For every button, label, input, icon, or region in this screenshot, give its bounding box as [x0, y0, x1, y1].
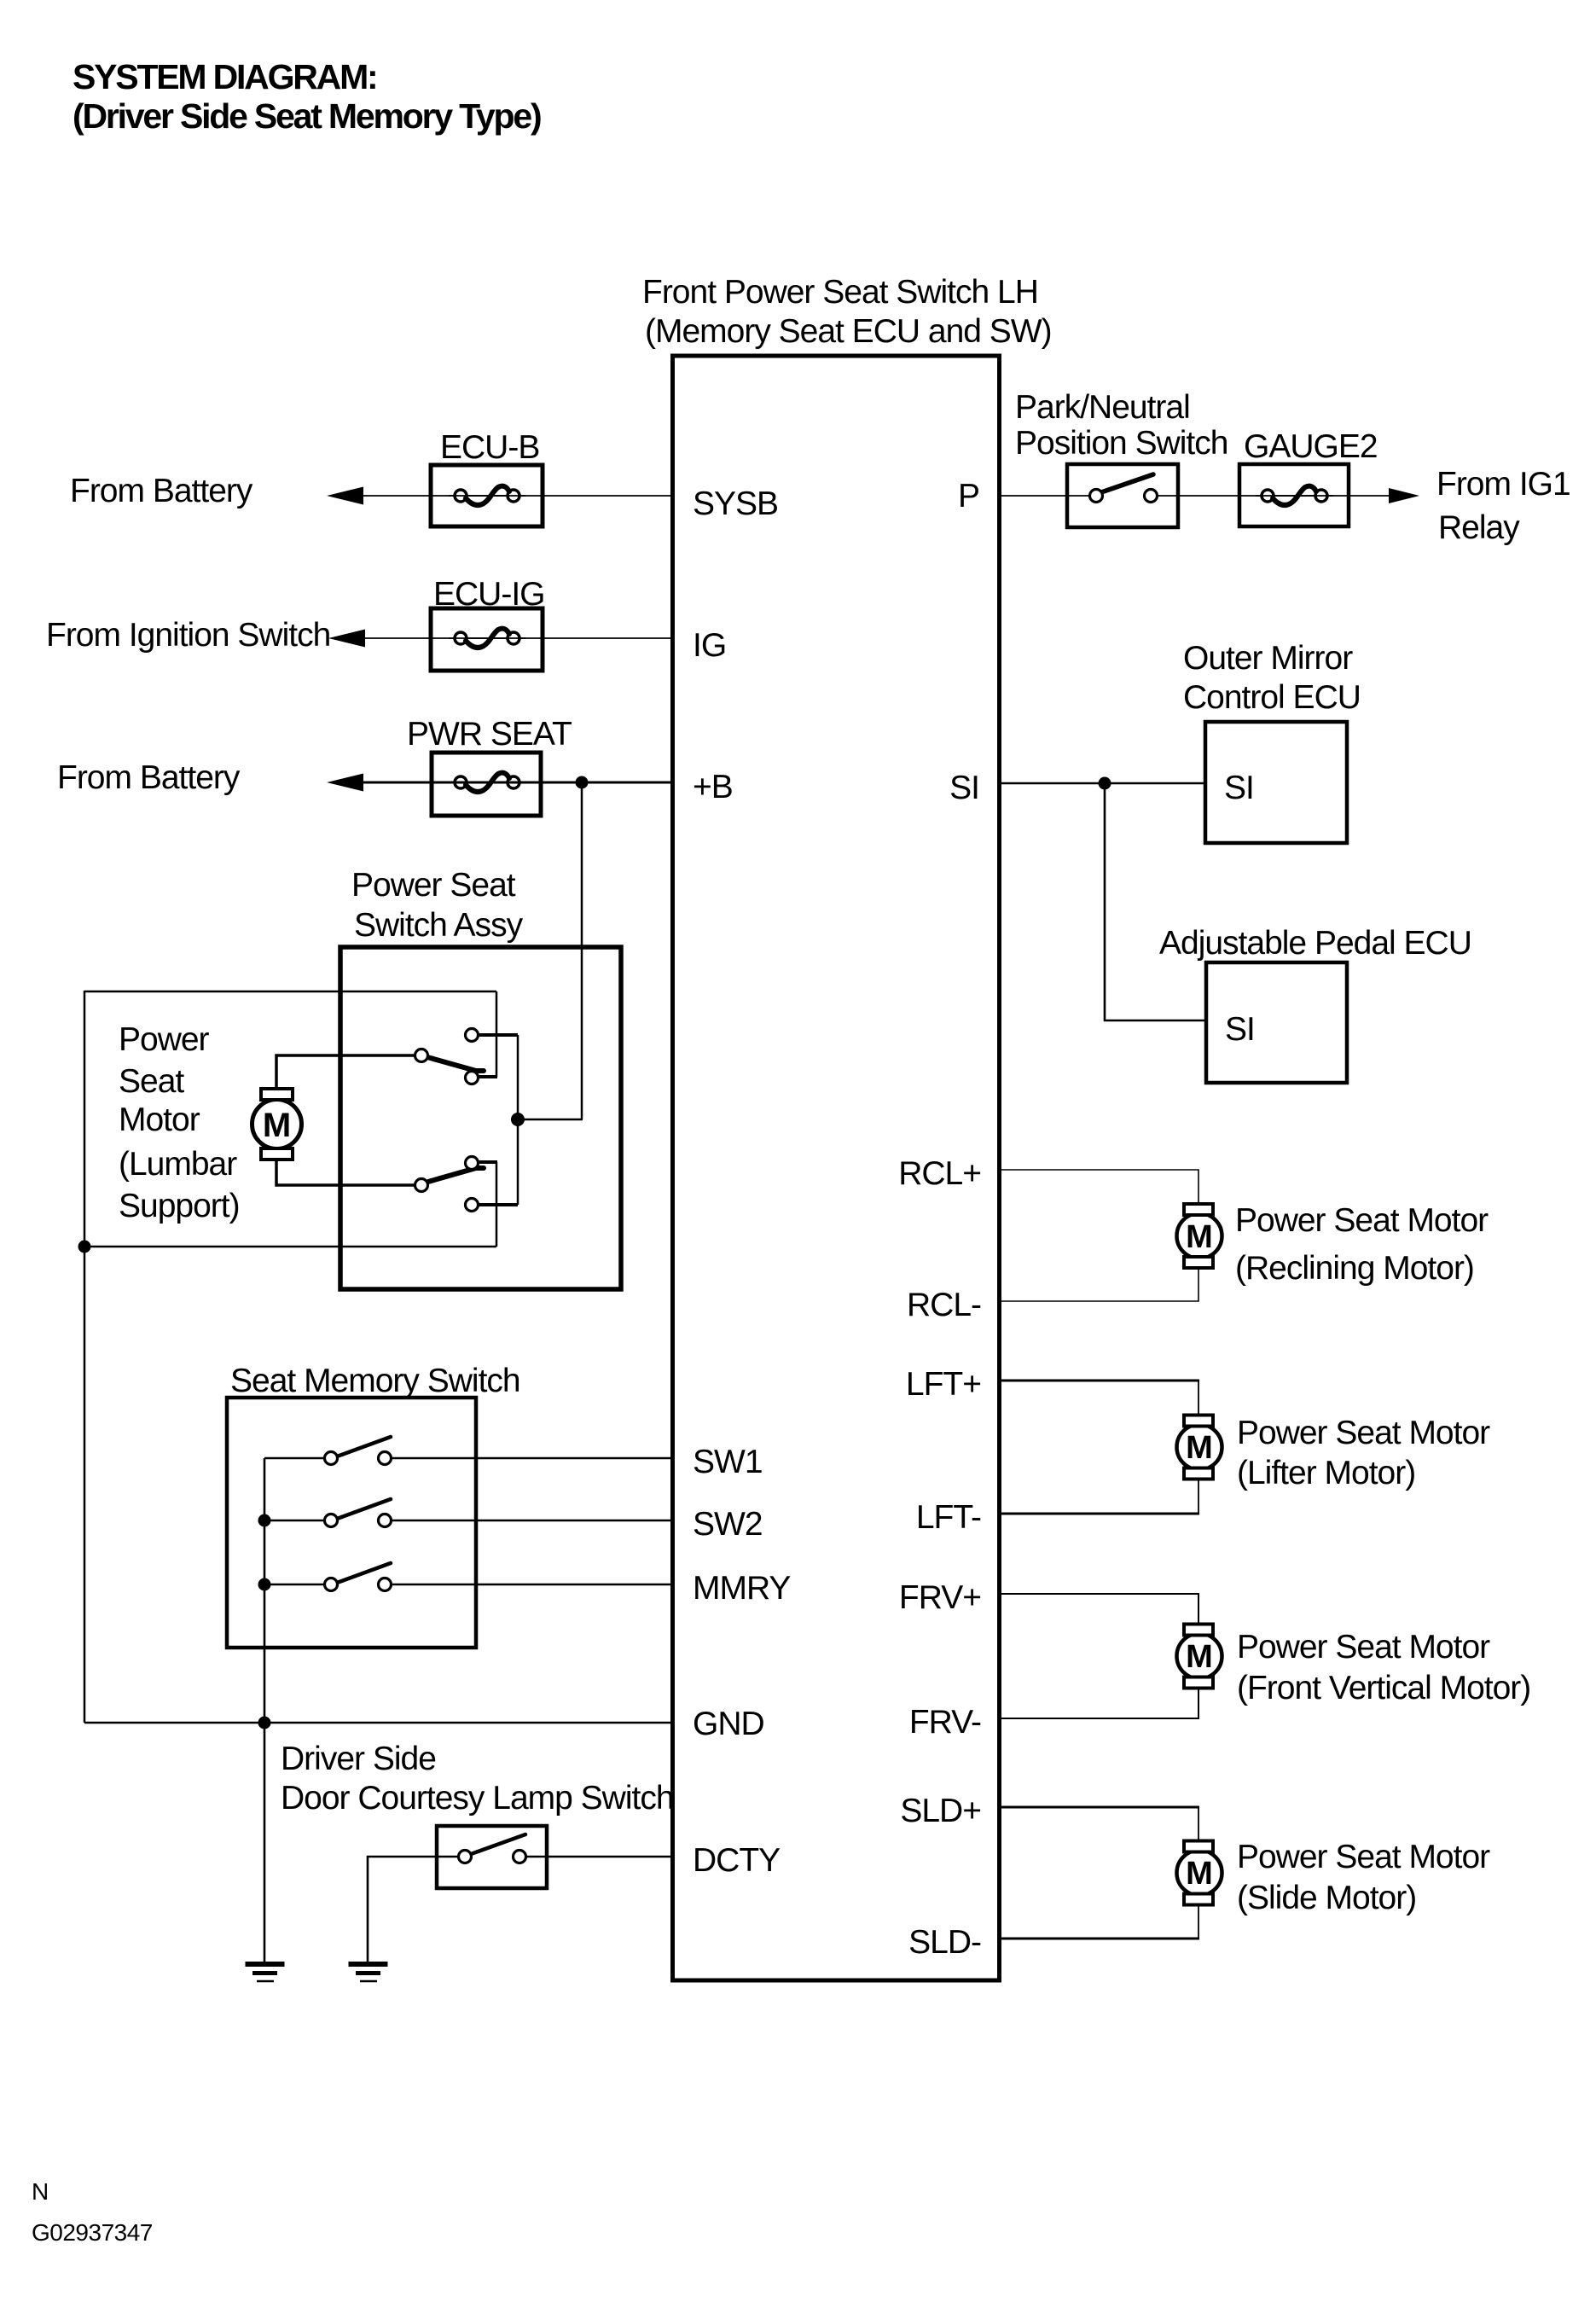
arrow to ignition switch (IG): [328, 630, 365, 648]
svg-text:Power Seat Motor: Power Seat Motor: [1237, 1839, 1490, 1875]
motor M5 slide motor: [1177, 1841, 1222, 1905]
Seat Memory Switch box: [227, 1363, 520, 1648]
junction dot SI net: [1099, 777, 1111, 790]
svg-text:SLD-: SLD-: [908, 1924, 981, 1961]
wire SW2 row: [392, 1520, 674, 1522]
wire stub to top switch lower contact: [477, 1075, 497, 1078]
svg-text:Switch Assy: Switch Assy: [354, 907, 524, 944]
svg-text:Seat: Seat: [119, 1063, 184, 1100]
wire bottom switch lower contact to +B net: [479, 1203, 518, 1206]
ECU U0 Front Power Seat Switch LH main box: [642, 274, 1052, 1980]
svg-text:IG: IG: [693, 627, 726, 664]
svg-text:Support): Support): [119, 1188, 240, 1224]
fuse PWR SEAT: [407, 716, 572, 816]
wire FRV- row: [999, 1689, 1198, 1718]
svg-text:(Memory Seat ECU and SW): (Memory Seat ECU and SW): [645, 313, 1052, 350]
svg-text:SI: SI: [1224, 770, 1254, 806]
wire memory switch common vertical: [264, 1458, 266, 1723]
wire lumbar loop right vertical lower: [496, 1162, 498, 1247]
switch SW1: [264, 1437, 392, 1465]
svg-text:G02937347: G02937347: [32, 2219, 153, 2246]
svg-text:DCTY: DCTY: [693, 1842, 781, 1879]
svg-text:M: M: [1186, 1430, 1213, 1466]
motor M3 lifter motor: [1177, 1415, 1222, 1479]
svg-text:SW2: SW2: [693, 1506, 763, 1543]
wire LFT+ row: [999, 1380, 1199, 1382]
svg-text:(Slide Motor): (Slide Motor): [1237, 1880, 1416, 1916]
wire MMRY row: [392, 1584, 674, 1586]
svg-text:ECU-B: ECU-B: [440, 429, 539, 466]
wire stub to bottom switch upper contact: [477, 1160, 497, 1164]
wire SI row: [999, 782, 1205, 785]
junction dot SW2 common: [258, 1514, 271, 1527]
svg-text:Position Switch: Position Switch: [1015, 425, 1227, 462]
switch S2 Park/Neutral Position Switch: [1015, 389, 1227, 527]
svg-text:Power Seat Motor: Power Seat Motor: [1235, 1202, 1489, 1239]
svg-text:From IG1: From IG1: [1436, 466, 1570, 503]
wire assy +B net to drop: [518, 1119, 583, 1121]
svg-text:PWR SEAT: PWR SEAT: [407, 716, 572, 753]
wire +B drop to switch assy: [581, 782, 583, 1119]
wire lumbar motor top lead: [276, 1055, 415, 1090]
svg-text:RCL+: RCL+: [898, 1155, 981, 1192]
node From IG1 Relay label: [1436, 466, 1570, 546]
wire memory common to ground symbol: [264, 1723, 266, 1964]
svg-text:Relay: Relay: [1438, 509, 1520, 546]
wire lumbar ground loop top: [84, 991, 496, 993]
junction dot MMRY common: [258, 1578, 271, 1591]
svg-text:RCL-: RCL-: [907, 1287, 981, 1323]
svg-text:Power Seat: Power Seat: [351, 867, 516, 904]
switch SW2: [264, 1499, 392, 1527]
junction +B node dot: [576, 776, 589, 789]
wire +B row: [337, 782, 674, 784]
svg-text:FRV-: FRV-: [909, 1704, 981, 1741]
wire P row: [999, 495, 1090, 497]
wire SYSB row: [337, 495, 674, 497]
title text: [73, 57, 541, 136]
arrow to battery (SYSB): [327, 487, 363, 505]
switch S1 Driver Side Door Courtesy Lamp Switch: [281, 1741, 674, 1888]
motor front vertical label: [1237, 1629, 1530, 1706]
wire lumbar ground loop bottom: [84, 1246, 496, 1248]
svg-text:(Front Vertical Motor): (Front Vertical Motor): [1237, 1670, 1530, 1706]
svg-text:Door Courtesy Lamp Switch: Door Courtesy Lamp Switch: [281, 1780, 674, 1817]
svg-text:M: M: [1186, 1639, 1213, 1675]
svg-text:SW1: SW1: [693, 1444, 763, 1480]
svg-text:From Battery: From Battery: [70, 473, 253, 509]
wire SLD+ row: [999, 1806, 1199, 1809]
ground symbol right: [349, 1964, 388, 1981]
motor reclining label: [1235, 1202, 1489, 1287]
wire SW1 row: [392, 1457, 674, 1460]
svg-text:Motor: Motor: [119, 1102, 200, 1138]
svg-text:SYSTEM DIAGRAM:: SYSTEM DIAGRAM:: [73, 57, 377, 96]
wire RCL- row: [999, 1268, 1198, 1301]
junction dot assy +B net: [511, 1113, 525, 1126]
wire LFT- row: [999, 1513, 1199, 1515]
svg-text:Seat Memory Switch: Seat Memory Switch: [230, 1363, 520, 1399]
wire RCL+ row: [999, 1170, 1198, 1204]
svg-text:GND: GND: [693, 1706, 764, 1742]
wire lumbar loop right vertical upper: [496, 991, 498, 1077]
ECU U2 Outer Mirror Control ECU: [1183, 640, 1361, 843]
svg-text:SI: SI: [949, 770, 979, 806]
motor M1 lumbar support: [252, 1089, 302, 1160]
fuse ECU-IG: [431, 576, 545, 671]
switch assy top switch: [415, 1029, 485, 1084]
svg-text:P: P: [958, 478, 979, 514]
svg-text:+B: +B: [693, 769, 733, 805]
wire SLD- row: [999, 1938, 1199, 1940]
wire +B net vertical in assy: [517, 1035, 519, 1205]
motor lifter label: [1237, 1415, 1490, 1491]
motor M4 front vertical motor: [1177, 1625, 1222, 1689]
svg-text:From Ignition Switch: From Ignition Switch: [46, 617, 330, 654]
ground symbol left: [246, 1964, 285, 1981]
svg-text:SYSB: SYSB: [693, 485, 778, 522]
svg-text:M: M: [1186, 1856, 1213, 1892]
fuse ECU-B: [431, 429, 543, 526]
svg-text:Outer Mirror: Outer Mirror: [1183, 640, 1353, 677]
svg-text:GAUGE2: GAUGE2: [1244, 428, 1378, 465]
wire IG row: [339, 637, 674, 639]
arrow to IG1 relay: [1389, 488, 1419, 503]
svg-text:(Driver Side Seat Memory Type): (Driver Side Seat Memory Type): [73, 96, 541, 136]
svg-text:M: M: [263, 1107, 291, 1144]
junction dot GND / memory common: [258, 1717, 271, 1729]
svg-text:(Lumbar: (Lumbar: [119, 1146, 237, 1183]
wire courtesy switch to ground: [368, 1857, 458, 1964]
svg-text:N: N: [32, 2178, 49, 2205]
svg-text:Power Seat Motor: Power Seat Motor: [1237, 1415, 1490, 1451]
switch MMRY: [264, 1563, 392, 1591]
svg-text:M: M: [1186, 1219, 1213, 1255]
svg-text:SI: SI: [1225, 1011, 1255, 1048]
wire ground left vertical: [84, 991, 86, 1723]
svg-text:Power Seat Motor: Power Seat Motor: [1237, 1629, 1490, 1665]
svg-text:Power: Power: [119, 1021, 210, 1058]
svg-text:Driver Side: Driver Side: [281, 1741, 436, 1777]
motor slide label: [1237, 1839, 1490, 1916]
svg-text:LFT+: LFT+: [906, 1366, 981, 1403]
motor lumbar support label: [119, 1021, 240, 1224]
motor M2 reclining motor: [1177, 1204, 1222, 1268]
wire top switch upper contact to +B net: [479, 1033, 518, 1037]
fuse GAUGE2: [1239, 428, 1378, 526]
svg-text:Control ECU: Control ECU: [1183, 679, 1361, 716]
svg-text:Adjustable Pedal ECU: Adjustable Pedal ECU: [1159, 925, 1471, 962]
svg-text:(Lifter Motor): (Lifter Motor): [1237, 1455, 1415, 1491]
wire SI branch to pedal ECU: [1105, 783, 1206, 1020]
svg-text:From Battery: From Battery: [57, 759, 241, 796]
wire lumbar motor bottom lead: [276, 1157, 415, 1185]
svg-text:SLD+: SLD+: [900, 1793, 981, 1829]
svg-text:FRV+: FRV+: [899, 1579, 981, 1616]
svg-text:LFT-: LFT-: [916, 1499, 981, 1536]
arrow to battery (+B): [327, 774, 363, 792]
svg-text:Front Power Seat Switch LH: Front Power Seat Switch LH: [642, 274, 1038, 311]
junction dot lumbar loop bottom-left: [78, 1241, 91, 1253]
wire GND row: [84, 1722, 674, 1724]
ECU U3 Adjustable Pedal ECU: [1159, 925, 1471, 1083]
Power Seat Switch Assy box: [340, 867, 621, 1289]
wire FRV+ row: [999, 1594, 1198, 1624]
switch assy bottom switch: [415, 1157, 485, 1212]
svg-text:MMRY: MMRY: [693, 1570, 791, 1607]
svg-text:(Reclining Motor): (Reclining Motor): [1235, 1250, 1474, 1287]
svg-text:Park/Neutral: Park/Neutral: [1015, 389, 1190, 426]
wire DCTY row: [526, 1856, 674, 1858]
